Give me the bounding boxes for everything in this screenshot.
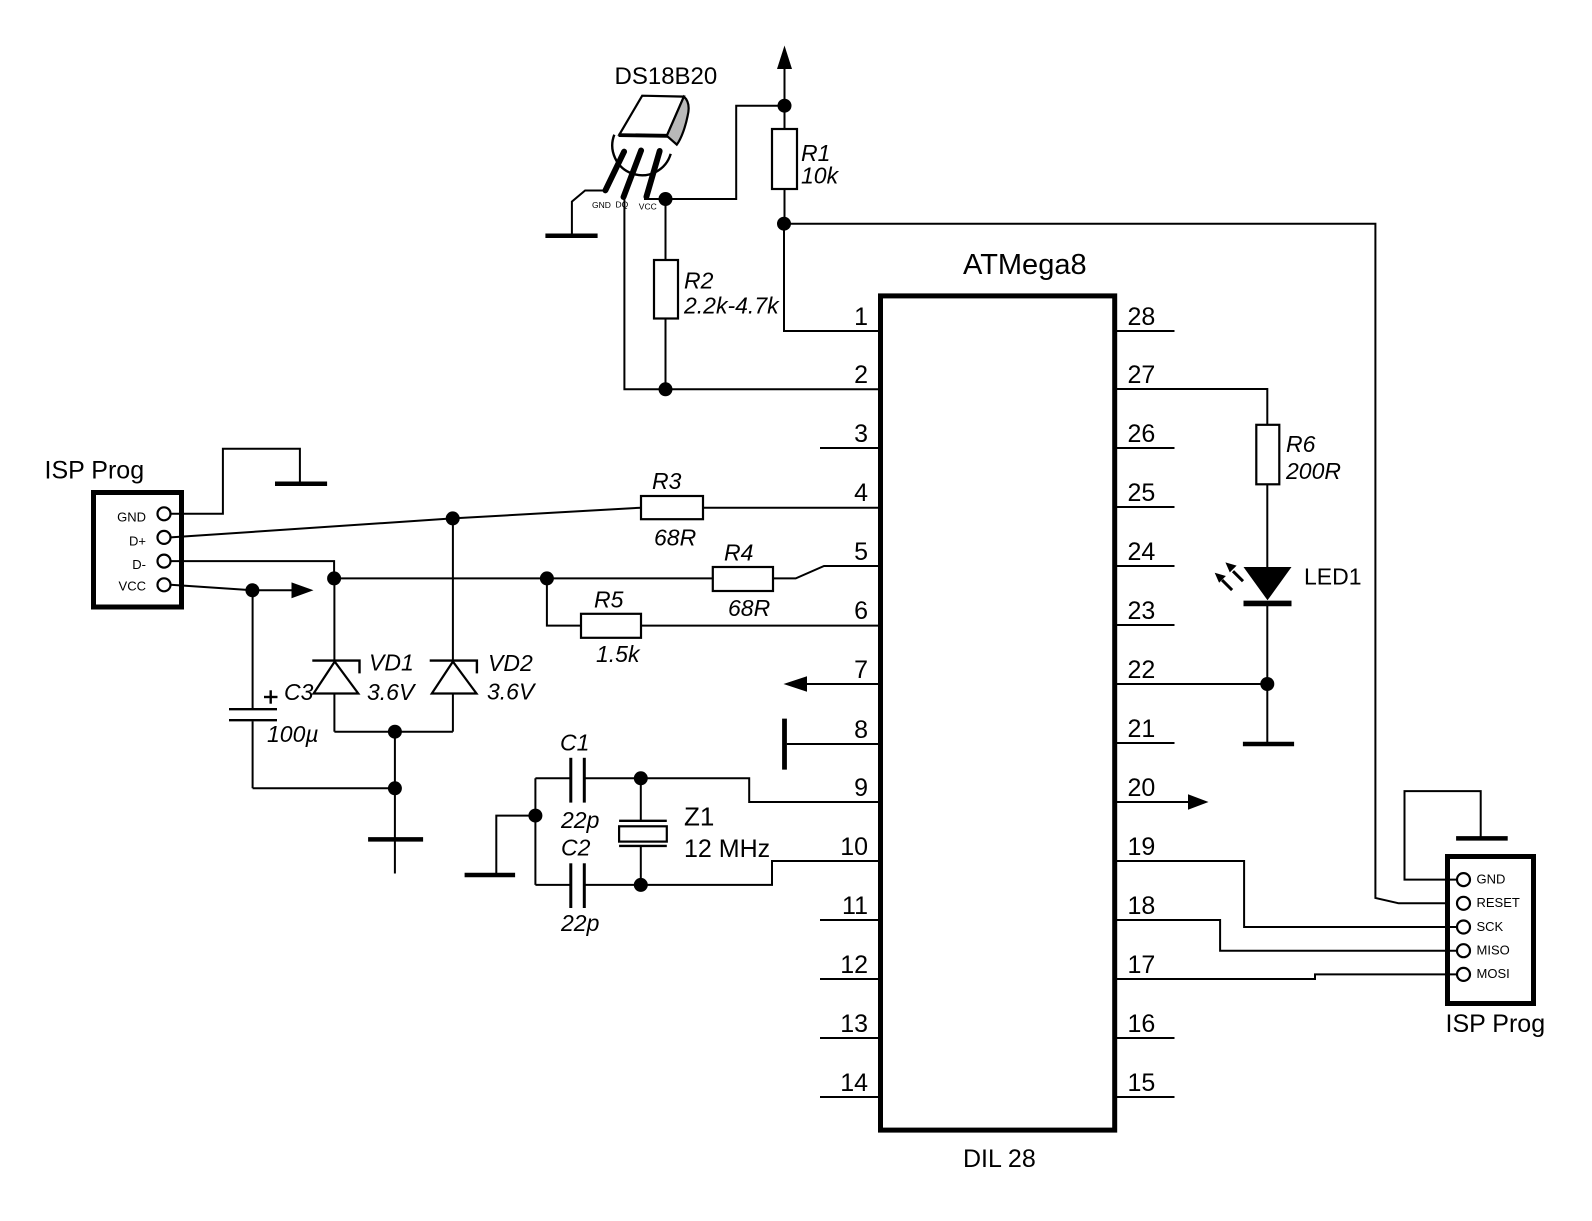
power VCC arrow (777, 46, 792, 70)
svg-text:ISP Prog: ISP Prog (45, 457, 145, 485)
node XTAL1 (634, 771, 648, 785)
pin 12 stub (820, 978, 878, 980)
pin 20 arrow (1117, 801, 1189, 803)
pin VCC circle (158, 578, 171, 591)
wire XTAL1 net (535, 777, 570, 779)
svg-text:27: 27 (1128, 361, 1156, 389)
wire MOSI to pin 17 (1117, 974, 1457, 979)
wire R1 bottom to right ISP RESET (784, 224, 1457, 904)
svg-text:12 MHz: 12 MHz (684, 835, 770, 863)
wire pin 22 to LED (1117, 683, 1267, 685)
svg-text:13: 13 (840, 1010, 868, 1038)
pin 23 stub (1117, 624, 1175, 626)
pin D+ circle (158, 531, 171, 544)
svg-text:MISO: MISO (1477, 943, 1510, 958)
C3 plus sign (264, 696, 278, 698)
pin 14 stub (820, 1096, 878, 1098)
pin 15 stub (1117, 1096, 1175, 1098)
svg-text:68R: 68R (728, 595, 770, 621)
node DQ (659, 382, 673, 396)
pin MISO circle (1457, 944, 1470, 957)
capacitor C3 (252, 590, 254, 708)
svg-text:19: 19 (1128, 833, 1156, 861)
ground (USB filter) (368, 837, 423, 842)
svg-text:C1: C1 (560, 730, 589, 756)
resistor R6 (1256, 425, 1279, 485)
svg-text:GND: GND (592, 200, 611, 210)
svg-text:3.6V: 3.6V (487, 679, 537, 705)
resistor R2 (665, 199, 667, 260)
wire VCC rail to sensor VCC (644, 106, 785, 199)
svg-text:ISP Prog: ISP Prog (1446, 1010, 1546, 1038)
ground (crystal) (465, 873, 515, 878)
wire SCK to pin 19 (1117, 861, 1457, 927)
svg-text:9: 9 (854, 774, 868, 802)
wire D+ (171, 518, 453, 537)
svg-text:GND: GND (1477, 871, 1506, 886)
svg-text:100µ: 100µ (267, 721, 319, 747)
wire R1 bottom to pin 1 (784, 224, 878, 331)
svg-text:4: 4 (854, 479, 868, 507)
svg-text:D-: D- (132, 557, 146, 572)
zener diode VD1 (333, 578, 335, 661)
wire sensor GND to ground (572, 191, 605, 234)
svg-text:10k: 10k (801, 163, 840, 189)
sensor DS18B20 body (612, 96, 688, 176)
svg-text:C2: C2 (561, 835, 591, 861)
ground (sensor) (545, 234, 597, 239)
svg-text:21: 21 (1128, 715, 1156, 743)
svg-text:20: 20 (1128, 774, 1156, 802)
resistor R5 (547, 578, 581, 625)
node D+ (446, 511, 460, 525)
svg-text:11: 11 (842, 892, 868, 920)
resistor R3 (641, 496, 703, 519)
svg-text:2.2k-4.7k: 2.2k-4.7k (683, 293, 780, 319)
sensor pin DQ (624, 151, 642, 198)
wire MISO to pin 18 (1117, 920, 1457, 951)
svg-text:VCC: VCC (119, 579, 146, 594)
pin 3 stub (820, 447, 878, 449)
LED LED1 (1244, 567, 1292, 600)
VCC direction arrow (292, 582, 314, 598)
svg-text:VD2: VD2 (488, 650, 533, 676)
svg-text:28: 28 (1128, 303, 1156, 331)
ground (right ISP) (1456, 836, 1508, 841)
svg-text:ATMega8: ATMega8 (963, 249, 1087, 281)
svg-text:24: 24 (1128, 538, 1156, 566)
svg-text:R4: R4 (724, 540, 753, 566)
svg-text:15: 15 (1128, 1069, 1156, 1097)
svg-text:R5: R5 (594, 587, 624, 613)
wire right GND to ground (1405, 791, 1481, 880)
svg-text:1.5k: 1.5k (596, 641, 641, 667)
svg-text:RESET: RESET (1477, 895, 1520, 910)
capacitor C1 (569, 758, 572, 803)
svg-text:8: 8 (854, 716, 868, 744)
wire pin 27 to R6 (1117, 389, 1267, 425)
svg-text:68R: 68R (654, 525, 696, 551)
svg-text:3.6V: 3.6V (367, 679, 417, 705)
pin 28 stub (1117, 330, 1175, 332)
wire DQ to pin 2 (624, 194, 878, 389)
svg-text:LED1: LED1 (1304, 564, 1362, 590)
pin 25 stub (1117, 506, 1175, 508)
svg-text:MOSI: MOSI (1477, 966, 1510, 981)
svg-text:VCC: VCC (639, 202, 657, 212)
pin 11 stub (820, 919, 878, 921)
pin 16 stub (1117, 1037, 1175, 1039)
svg-text:R3: R3 (652, 468, 682, 494)
svg-text:DIL 28: DIL 28 (963, 1145, 1036, 1173)
svg-text:D+: D+ (129, 534, 146, 549)
node VD join (388, 725, 402, 739)
pin SCK circle (1457, 921, 1470, 934)
node R1 bottom (777, 217, 791, 231)
svg-text:C3: C3 (284, 679, 314, 705)
svg-text:SCK: SCK (1477, 919, 1504, 934)
svg-text:2: 2 (854, 361, 868, 389)
wire XTAL2 net (535, 884, 570, 886)
pin GND circle (158, 507, 171, 520)
svg-text:6: 6 (854, 597, 868, 625)
pin 7 arrow (806, 683, 878, 685)
svg-text:5: 5 (854, 538, 868, 566)
capacitor C2 (569, 863, 572, 908)
svg-text:12: 12 (840, 951, 868, 979)
node VCC tap (245, 583, 259, 597)
node XTAL2 (634, 878, 648, 892)
sensor pin GND (605, 152, 624, 191)
svg-text:1: 1 (854, 303, 868, 331)
node VCC rail (778, 99, 792, 113)
svg-text:3: 3 (854, 420, 868, 448)
wire D- (171, 561, 335, 578)
pin 8 bar (782, 719, 787, 770)
wire caps common (534, 778, 536, 885)
svg-text:17: 17 (1128, 951, 1156, 979)
svg-text:22: 22 (1128, 656, 1156, 684)
wire VD anodes join (334, 731, 453, 733)
svg-text:200R: 200R (1285, 458, 1341, 484)
node LED cathode (1260, 677, 1274, 691)
svg-text:23: 23 (1128, 597, 1156, 625)
resistor R4 (713, 567, 773, 591)
node D- (327, 571, 341, 585)
ground (LED) (1243, 742, 1294, 747)
node caps common (528, 809, 542, 823)
connector ISP Prog (right) (1448, 857, 1534, 1004)
IC ATMega8 body (881, 296, 1115, 1130)
node sensor VCC (659, 192, 673, 206)
svg-text:DQ: DQ (616, 200, 629, 210)
svg-text:22p: 22p (560, 910, 600, 936)
svg-text:25: 25 (1128, 479, 1156, 507)
svg-text:10: 10 (840, 833, 868, 861)
crystal Z1 (640, 778, 642, 821)
svg-text:Z1: Z1 (684, 802, 714, 832)
pin 24 stub (1117, 565, 1175, 567)
pin MOSI circle (1457, 968, 1470, 981)
svg-text:22p: 22p (560, 807, 600, 833)
sensor pin VCC (646, 151, 659, 197)
wire VCC out (171, 585, 253, 591)
svg-text:14: 14 (840, 1069, 868, 1097)
node R5 tap (540, 571, 554, 585)
svg-text:16: 16 (1128, 1010, 1156, 1038)
wire left GND to ground (171, 449, 300, 514)
pin RESET circle (1457, 897, 1470, 910)
svg-text:26: 26 (1128, 420, 1156, 448)
svg-text:VD1: VD1 (369, 650, 414, 676)
LED1 emission arrows (1215, 562, 1243, 590)
svg-text:R6: R6 (1286, 431, 1316, 457)
pin D- circle (158, 555, 171, 568)
svg-text:GND: GND (117, 510, 146, 525)
pin GND circle (1457, 873, 1470, 886)
pin 21 stub (1117, 742, 1175, 744)
svg-text:7: 7 (854, 656, 868, 684)
svg-text:R2: R2 (684, 268, 714, 294)
svg-text:DS18B20: DS18B20 (615, 63, 718, 90)
ground (left ISP) (275, 481, 327, 486)
pin 13 stub (820, 1037, 878, 1039)
pin 26 stub (1117, 447, 1175, 449)
resistor R1 (784, 106, 786, 129)
zener diode VD2 (452, 518, 454, 661)
svg-text:18: 18 (1128, 892, 1156, 920)
node C3 join (388, 781, 402, 795)
